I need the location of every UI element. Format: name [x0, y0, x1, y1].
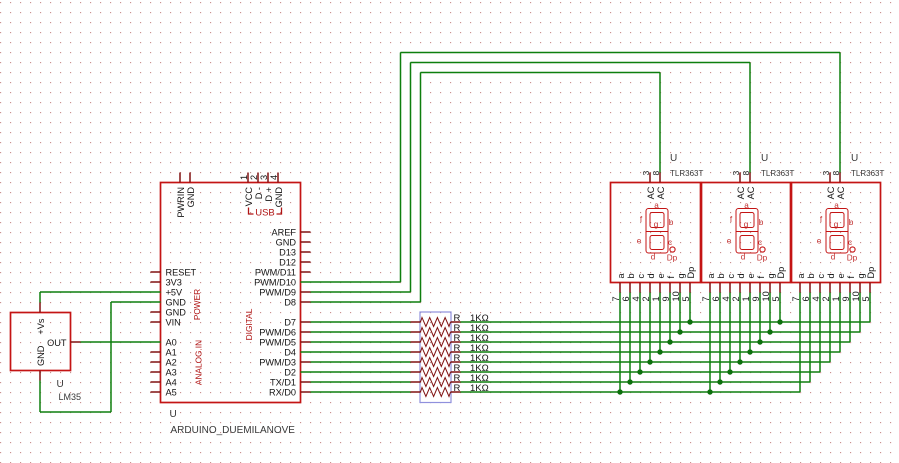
svg-text:e: e [836, 273, 846, 278]
pin A3 (Arduino left, y=372) [151, 367, 177, 377]
svg-text:GND: GND [166, 307, 187, 317]
junction display1 pin at row y=392 [617, 389, 622, 394]
svg-text:Dp: Dp [667, 254, 678, 263]
svg-text:+Vs: +Vs [36, 318, 46, 334]
svg-text:b: b [626, 273, 636, 278]
svg-text:d: d [826, 273, 836, 278]
svg-text:Dp: Dp [757, 254, 768, 263]
wire net PWM/D10 to display3 pin8 [301, 53, 841, 283]
svg-text:g: g [856, 273, 866, 278]
label LM35 [59, 392, 82, 402]
svg-text:g: g [766, 273, 776, 278]
pin 2 segment d (display 2 bottom) [731, 273, 746, 301]
svg-text:b: b [759, 218, 764, 227]
wire display2 pin drop x=740.0 [739, 293, 741, 363]
junction display1 pin at row y=352 [657, 349, 662, 354]
svg-text:d: d [831, 253, 836, 262]
wire net PWM/D5 segment row (resistor to display3 pin) [461, 341, 851, 343]
pin GND (Arduino left, y=302) [166, 297, 187, 307]
junction display1 pin at row y=362 [647, 359, 652, 364]
svg-text:TLR363T: TLR363T [670, 169, 703, 178]
wire A0 net: LM35 OUT to Arduino A0 [81, 341, 161, 343]
svg-text:U: U [851, 153, 858, 164]
junction display2 pin at row y=322 [777, 319, 782, 324]
pin 5 segment Dp (display 2 bottom) [771, 267, 786, 302]
pin GND (Arduino right, y=242) [276, 237, 311, 247]
svg-text:VCC: VCC [244, 187, 254, 207]
junction display2 pin at row y=392 [707, 389, 712, 394]
wire display2 pin drop x=730.0 [729, 293, 731, 373]
svg-text:4: 4 [269, 175, 279, 180]
pin 1 VCC (Arduino USB group) [239, 173, 254, 207]
junction display1 pin at row y=322 [687, 319, 692, 324]
svg-text:PWM/D9: PWM/D9 [259, 287, 296, 297]
svg-text:a: a [654, 201, 659, 210]
pin 4 segment c (display 2 bottom) [721, 274, 736, 302]
wire display3 pin drop to row y=392 [799, 293, 801, 393]
wire display2 pin drop x=780.0 [779, 293, 781, 323]
label DIGITAL [244, 308, 254, 340]
segment letter labels a-g Dp (display 3) [817, 201, 858, 263]
svg-text:LM35: LM35 [59, 392, 82, 402]
pin 4 GND (Arduino USB group) [269, 173, 284, 208]
svg-text:a: a [616, 273, 626, 279]
svg-text:c: c [636, 274, 646, 279]
resistor R4 1KΩ (row y=352) [411, 343, 489, 357]
pin 8 AC (display 2 top) [741, 171, 756, 200]
svg-text:c: c [668, 238, 672, 247]
svg-text:AC: AC [746, 186, 756, 199]
svg-text:3: 3 [731, 171, 741, 176]
wire net PWM/D6 segment row (resistor to display3 pin) [461, 331, 861, 333]
label U (LM35 refdes) [57, 379, 64, 390]
svg-text:PWM/D3: PWM/D3 [259, 357, 296, 367]
7-segment display U TLR363T #3 body [792, 183, 881, 283]
svg-text:g: g [654, 220, 659, 229]
wire display1 pin drop x=670.0 [669, 293, 671, 343]
svg-text:1: 1 [239, 175, 249, 180]
pin PWM/D11 (Arduino right, y=272) [255, 267, 311, 277]
resistor R6 1KΩ (row y=372) [411, 363, 489, 377]
selection box around resistor bank [420, 312, 451, 403]
svg-text:3: 3 [821, 171, 831, 176]
svg-text:USB: USB [255, 208, 275, 219]
pin D8 (Arduino right, y=302) [284, 297, 310, 307]
pin 10 segment g (display 1 bottom) [671, 273, 686, 301]
7-segment digit glyph (display 1) [646, 209, 675, 254]
svg-text:c: c [726, 274, 736, 279]
pin 8 AC (display 1 top) [651, 171, 666, 200]
pin 1 segment e (display 1 bottom) [651, 273, 666, 301]
svg-text:Dp: Dp [866, 267, 876, 279]
pin PWM/D9 (Arduino right, y=292) [259, 287, 310, 297]
resistor R5 1KΩ (row y=362) [411, 353, 489, 367]
svg-text:D8: D8 [284, 297, 296, 307]
pin A4 (Arduino left, y=382) [151, 377, 177, 387]
svg-text:d: d [651, 253, 656, 262]
svg-text:AREF: AREF [271, 227, 296, 237]
pin 7 segment a (display 2 bottom) [701, 273, 716, 302]
wire display3 pin drop to row y=362 [829, 293, 831, 363]
pin 2 segment d (display 1 bottom) [641, 273, 656, 301]
label U (Arduino refdes) [170, 409, 177, 420]
svg-text:U: U [170, 409, 177, 420]
pin 2 D - (Arduino USB group) [249, 173, 264, 200]
pin D13 (Arduino right, y=252) [279, 247, 310, 257]
wire net TX/D1 segment row (left of resistor) [311, 381, 411, 383]
wire net D2 segment row (resistor to display3 pin) [461, 371, 821, 373]
wire display2 pin drop x=770.0 [769, 293, 771, 333]
pin TX/D1 (Arduino right, y=382) [270, 377, 311, 387]
svg-text:PWM/D6: PWM/D6 [259, 327, 296, 337]
pin GND (Arduino left, y=312) [151, 307, 187, 317]
svg-text:AC: AC [836, 186, 846, 199]
svg-text:D4: D4 [284, 347, 296, 357]
svg-text:Dp: Dp [776, 267, 786, 279]
svg-text:A0: A0 [166, 337, 177, 347]
label U (display 1 refdes) [670, 153, 677, 164]
pin 9 segment f (display 2 bottom) [751, 276, 766, 302]
pin 2 segment d (display 3 bottom) [821, 273, 836, 301]
sensor U LM35 body [11, 313, 71, 371]
label TLR363T (display 1) [670, 169, 703, 178]
junction display1 pin at row y=342 [667, 339, 672, 344]
svg-text:c: c [758, 238, 762, 247]
svg-text:AC: AC [736, 186, 746, 199]
junction display1 pin at row y=332 [677, 329, 682, 334]
svg-text:DIGITAL: DIGITAL [244, 308, 254, 340]
label POWER [192, 289, 202, 320]
label U (display 2 refdes) [761, 153, 768, 164]
pin GND (Arduino top power group) [186, 173, 196, 208]
pin VIN (Arduino left, y=322) [151, 317, 181, 327]
junction display2 pin at row y=382 [717, 379, 722, 384]
wire net PWM/D6 segment row (left of resistor) [311, 331, 411, 333]
svg-text:VIN: VIN [166, 317, 181, 327]
svg-text:AC: AC [646, 186, 656, 199]
wire net D7 segment row (left of resistor) [311, 321, 411, 323]
svg-text:RX/D0: RX/D0 [269, 387, 296, 397]
pin 3 AC (display 1 top) [641, 171, 656, 200]
svg-text:3: 3 [641, 171, 651, 176]
svg-text:AC: AC [826, 186, 836, 199]
pin 3 AC (display 3 top) [821, 171, 836, 200]
svg-text:GND: GND [36, 345, 46, 366]
segment letter labels a-g Dp (display 1) [637, 201, 678, 263]
svg-text:D13: D13 [279, 247, 296, 257]
wire GND net: LM35 GND down/right/up to Arduino GND [40, 302, 161, 412]
pin GND (LM35 bottom) [36, 345, 46, 380]
wire display2 pin drop x=750.0 [749, 293, 751, 353]
pin A2 (Arduino left, y=362) [151, 357, 177, 367]
svg-text:GND: GND [274, 187, 284, 208]
svg-text:f: f [666, 276, 676, 279]
pin 9 segment f (display 1 bottom) [661, 276, 676, 302]
wire display2 pin drop x=710.0 [709, 293, 711, 393]
svg-text:AC: AC [656, 186, 666, 199]
svg-text:PWM/D5: PWM/D5 [259, 337, 296, 347]
svg-text:b: b [669, 218, 674, 227]
svg-text:D2: D2 [284, 367, 296, 377]
wire net D7 segment row (resistor to display3 pin) [461, 321, 871, 323]
wire display3 pin drop to row y=352 [839, 293, 841, 353]
pin +Vs (LM35 top) [36, 303, 46, 335]
pin 3V3 (Arduino left, y=282) [151, 277, 182, 287]
wire display1 pin drop x=630.0 [629, 293, 631, 383]
label TLR363T (display 3) [851, 169, 884, 178]
svg-text:Dp: Dp [686, 267, 696, 279]
pin OUT (LM35 right) [47, 338, 80, 348]
wire display2 pin drop x=720.0 [719, 293, 721, 383]
junction display2 pin at row y=342 [757, 339, 762, 344]
svg-text:TX/D1: TX/D1 [270, 377, 296, 387]
svg-text:b: b [806, 273, 816, 278]
wire net PWM/D3 segment row (left of resistor) [311, 361, 411, 363]
pin 6 segment b (display 2 bottom) [711, 273, 726, 301]
svg-text:A1: A1 [166, 347, 177, 357]
pin +5V (Arduino left, y=292) [166, 287, 183, 297]
svg-text:OUT: OUT [47, 338, 67, 348]
7-segment digit glyph (display 3) [826, 209, 855, 254]
wire net RX/D0 segment row (resistor to display3 pin) [461, 391, 801, 393]
pin 6 segment b (display 1 bottom) [621, 273, 636, 301]
svg-text:f: f [756, 276, 766, 279]
svg-text:GND: GND [166, 297, 187, 307]
pin 10 segment g (display 2 bottom) [761, 273, 776, 301]
pin PWM/D3 (Arduino right, y=362) [259, 357, 310, 367]
pin AREF (Arduino right, y=232) [271, 227, 310, 237]
svg-text:f: f [846, 276, 856, 279]
svg-text:A2: A2 [166, 357, 177, 367]
junction display2 pin at row y=352 [747, 349, 752, 354]
pin D7 (Arduino right, y=322) [284, 317, 310, 327]
pin 1 segment e (display 3 bottom) [831, 273, 846, 301]
svg-text:g: g [834, 220, 839, 229]
wire net RX/D0 segment row (left of resistor) [311, 391, 411, 393]
svg-text:A3: A3 [166, 367, 177, 377]
svg-text:b: b [716, 273, 726, 278]
wire display1 pin drop x=690.0 [689, 293, 691, 323]
svg-text:e: e [727, 237, 732, 246]
svg-text:3: 3 [259, 175, 269, 180]
wire display3 pin drop to row y=382 [809, 293, 811, 383]
pin A0 (Arduino left, y=342) [166, 337, 177, 347]
pin A5 (Arduino left, y=392) [151, 387, 177, 397]
label USB with brackets [249, 208, 282, 219]
svg-text:+5V: +5V [166, 287, 183, 297]
wire net D8 to display1 pin8 [311, 73, 661, 303]
label TLR363T (display 2) [761, 169, 794, 178]
svg-text:e: e [817, 237, 822, 246]
svg-text:b: b [849, 218, 854, 227]
svg-text:R: R [454, 383, 461, 394]
junction display2 pin at row y=372 [727, 369, 732, 374]
pin D2 (Arduino right, y=372) [284, 367, 296, 377]
pin 5 segment Dp (display 3 bottom) [861, 267, 876, 302]
svg-text:g: g [676, 273, 686, 278]
svg-text:a: a [706, 273, 716, 279]
pin PWRIN (Arduino top power group) [176, 173, 186, 218]
wire net PWM/D5 segment row (left of resistor) [311, 341, 411, 343]
svg-text:POWER: POWER [192, 289, 202, 320]
svg-text:D +: D + [264, 187, 274, 202]
svg-text:D7: D7 [284, 317, 296, 327]
wire display3 pin drop to row y=322 [869, 293, 871, 323]
svg-text:TLR363T: TLR363T [761, 169, 794, 178]
svg-text:Dp: Dp [847, 254, 858, 263]
label U (display 3 refdes) [851, 153, 858, 164]
svg-text:A4: A4 [166, 377, 177, 387]
svg-text:RESET: RESET [166, 267, 197, 277]
svg-text:3V3: 3V3 [166, 277, 182, 287]
pin 3 D + (Arduino USB group) [259, 173, 274, 202]
svg-text:PWM/D11: PWM/D11 [255, 267, 296, 277]
svg-text:GND: GND [276, 237, 297, 247]
pin 4 segment c (display 1 bottom) [631, 274, 646, 302]
pin 1 segment e (display 2 bottom) [741, 273, 756, 301]
pin A1 (Arduino left, y=352) [151, 347, 177, 357]
pin 6 segment b (display 3 bottom) [801, 273, 816, 301]
svg-text:U: U [57, 379, 64, 390]
svg-text:e: e [637, 237, 642, 246]
junction display1 pin at row y=382 [627, 379, 632, 384]
7-segment digit glyph (display 2) [736, 209, 765, 254]
wire net D4 segment row (left of resistor) [301, 351, 411, 353]
wire net PWM/D9 to display2 pin8 [311, 63, 751, 293]
segment letter labels a-g Dp (display 2) [727, 201, 768, 263]
resistor R8 1KΩ (row y=392) [411, 383, 489, 397]
svg-text:a: a [834, 201, 839, 210]
pin RESET (Arduino left, y=272) [151, 267, 197, 277]
svg-text:d: d [646, 273, 656, 278]
label ANALOG.IN [194, 340, 204, 385]
svg-text:c: c [848, 238, 852, 247]
wire display1 pin drop x=680.0 [679, 293, 681, 333]
resistor R1 1KΩ (row y=322) [411, 313, 489, 327]
wire display3 pin drop to row y=342 [849, 293, 851, 343]
label ARDUINO_DUEMILANOVE [171, 425, 296, 436]
pin D4 (Arduino right, y=352) [284, 347, 296, 357]
pin 10 segment g (display 3 bottom) [851, 273, 866, 301]
pin 8 AC (display 3 top) [831, 171, 846, 200]
svg-text:GND: GND [186, 187, 196, 208]
junction display1 pin at row y=372 [637, 369, 642, 374]
svg-text:D12: D12 [279, 257, 296, 267]
pin 9 segment f (display 3 bottom) [841, 276, 856, 302]
svg-text:d: d [741, 253, 746, 262]
svg-text:TLR363T: TLR363T [851, 169, 884, 178]
7-segment display U TLR363T #2 body [702, 183, 791, 283]
wire display1 pin drop x=620.0 [619, 293, 621, 393]
wire display2 pin drop x=760.0 [759, 293, 761, 343]
svg-text:U: U [761, 153, 768, 164]
pin 4 segment c (display 3 bottom) [811, 274, 826, 302]
wire display3 pin drop to row y=332 [859, 293, 861, 333]
svg-text:a: a [744, 201, 749, 210]
pin 7 segment a (display 1 bottom) [611, 273, 626, 302]
pin PWM/D5 (Arduino right, y=342) [259, 337, 310, 347]
pin D12 (Arduino right, y=262) [279, 257, 310, 267]
junction display2 pin at row y=362 [737, 359, 742, 364]
svg-text:2: 2 [249, 175, 259, 180]
wire net D4 segment row (resistor to display3 pin) [461, 351, 841, 353]
svg-text:c: c [816, 274, 826, 279]
svg-text:ANALOG.IN: ANALOG.IN [194, 340, 204, 385]
7-segment display U TLR363T #1 body [611, 183, 701, 283]
svg-text:U: U [670, 153, 677, 164]
resistor R3 1KΩ (row y=342) [411, 333, 489, 347]
wire net D2 segment row (left of resistor) [301, 371, 411, 373]
resistor R2 1KΩ (row y=332) [411, 323, 489, 337]
pin 7 segment a (display 3 bottom) [791, 273, 806, 302]
wire display3 pin drop to row y=372 [819, 293, 821, 373]
svg-text:ARDUINO_DUEMILANOVE: ARDUINO_DUEMILANOVE [171, 425, 296, 436]
pin 5 segment Dp (display 1 bottom) [681, 267, 696, 302]
svg-text:e: e [746, 273, 756, 278]
svg-text:PWRIN: PWRIN [176, 187, 186, 218]
svg-text:g: g [744, 220, 749, 229]
svg-text:e: e [656, 273, 666, 278]
svg-text:a: a [796, 273, 806, 279]
svg-text:D -: D - [254, 187, 264, 199]
pin 3 AC (display 2 top) [731, 171, 746, 200]
svg-text:PWM/D10: PWM/D10 [254, 277, 296, 287]
pin PWM/D10 (Arduino right, y=282) [254, 277, 296, 287]
wire display1 pin drop x=650.0 [649, 293, 651, 363]
pin RX/D0 (Arduino right, y=392) [269, 387, 311, 397]
resistor R7 1KΩ (row y=382) [411, 373, 489, 387]
wire net TX/D1 segment row (resistor to display3 pin) [461, 381, 811, 383]
wire display1 pin drop x=660.0 [659, 293, 661, 353]
pin PWM/D6 (Arduino right, y=332) [259, 327, 310, 337]
junction display2 pin at row y=332 [767, 329, 772, 334]
wire +5V net: LM35 +Vs to Arduino +5V [40, 292, 161, 303]
svg-text:A5: A5 [166, 387, 177, 397]
wire net PWM/D3 segment row (resistor to display3 pin) [461, 361, 831, 363]
IC U ARDUINO_DUEMILANOVE body [161, 183, 301, 403]
wire display1 pin drop x=640.0 [639, 293, 641, 373]
svg-text:d: d [736, 273, 746, 278]
